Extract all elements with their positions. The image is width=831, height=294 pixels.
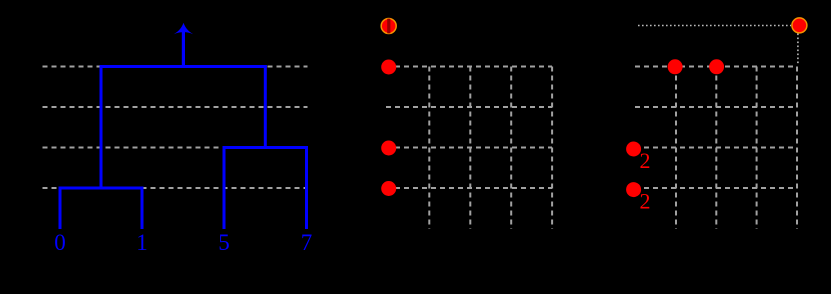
svg-text:2: 2 <box>640 189 651 214</box>
right top dotted connector (horizontal) <box>638 25 791 27</box>
svg-text:1: 1 <box>136 230 148 255</box>
right top dotted connector (vertical) <box>797 34 799 66</box>
middle dot at level 1 <box>381 60 396 75</box>
middle grid horizontal dashed line 4 <box>386 187 552 189</box>
dendrogram root stem <box>182 30 185 67</box>
dendrogram stem of cluster 0-1 <box>100 65 103 188</box>
right grid horizontal dashed line 1 <box>635 66 797 68</box>
root arrowhead <box>174 23 193 34</box>
middle grid horizontal dashed line 3 <box>386 147 552 149</box>
svg-text:2: 2 <box>640 148 651 173</box>
svg-text:5: 5 <box>218 230 230 255</box>
middle grid vertical dashed line 4 <box>551 67 553 230</box>
dashed level line h1 (left panel) <box>43 66 308 68</box>
right dot on level 1 col 1 <box>668 59 683 74</box>
dendrogram stem of cluster 5-7 <box>264 65 267 148</box>
middle dot at level 4 <box>381 181 396 196</box>
middle top node dot (orange-ringed, striped) <box>381 18 396 34</box>
middle grid horizontal dashed line 2 <box>386 106 552 108</box>
svg-text:7: 7 <box>301 230 313 255</box>
right dot on level 4 (weight 2) <box>626 182 641 197</box>
svg-text:0: 0 <box>54 230 66 255</box>
right grid horizontal dashed line 2 <box>635 106 797 108</box>
middle grid horizontal dashed line 1 <box>386 66 552 68</box>
dendrogram cluster 0-1 bracket <box>60 188 142 229</box>
middle grid vertical dashed line 2 <box>469 67 471 230</box>
right dot on level 1 col 2 <box>709 59 724 74</box>
middle dot at level 3 <box>381 141 396 156</box>
middle grid vertical dashed line 1 <box>428 67 430 230</box>
right grid vertical dashed line 4 <box>796 67 798 230</box>
right grid vertical dashed line 1 <box>675 67 677 230</box>
right grid vertical dashed line 2 <box>715 67 717 230</box>
dendrogram root bracket <box>100 65 267 68</box>
right grid horizontal dashed line 4 <box>635 187 797 189</box>
dashed level line h3 (left panel) <box>43 147 308 149</box>
dashed level line h4 (left panel) <box>43 187 308 189</box>
right grid horizontal dashed line 3 <box>635 147 797 149</box>
dendrogram cluster 5-7 bracket <box>224 148 307 230</box>
right top-right dot (orange-ringed) <box>792 18 807 33</box>
right grid vertical dashed line 3 <box>756 67 758 230</box>
dashed level line h2 (left panel) <box>43 106 308 108</box>
middle grid vertical dashed line 3 <box>510 67 512 230</box>
right dot on level 3 (weight 2) <box>626 142 641 157</box>
